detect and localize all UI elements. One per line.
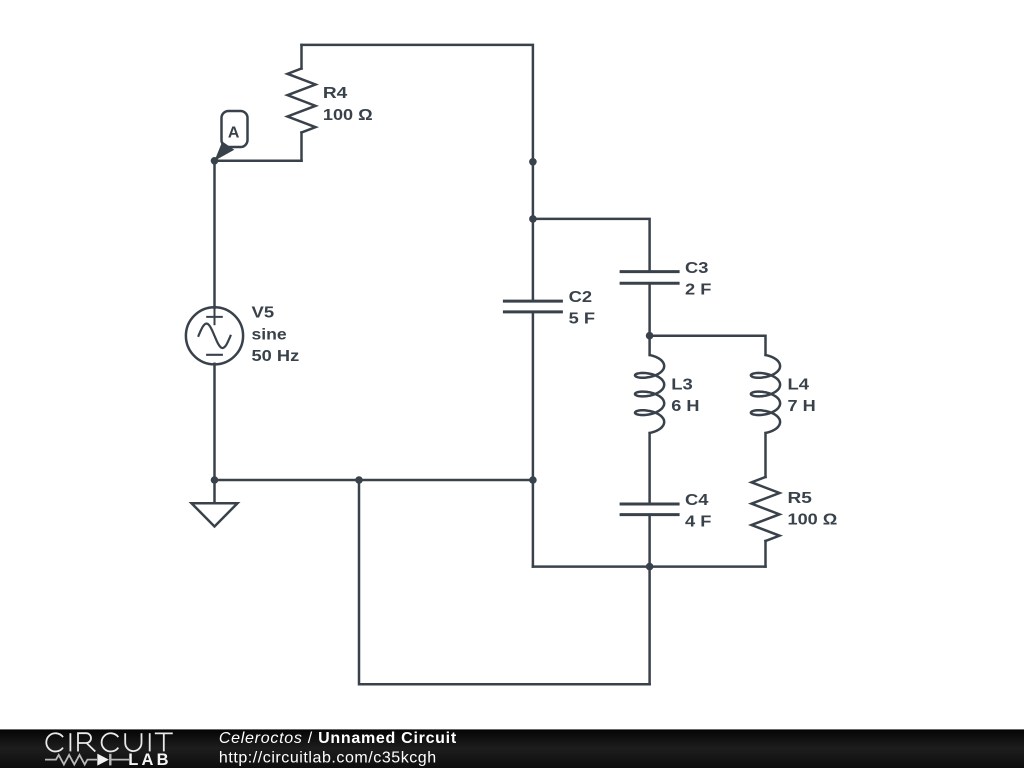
wire: C4 bottom plate to bottom loop bbox=[648, 515, 651, 685]
svg-text:C4: C4 bbox=[685, 492, 709, 509]
wire: bottom return loop to ground rail bbox=[359, 480, 650, 684]
wire: ground rail from V5 junction to C2 trunk bbox=[215, 479, 533, 482]
footer bar background bbox=[0, 729, 1024, 768]
svg-text:R5: R5 bbox=[788, 490, 813, 507]
svg-text:5 F: 5 F bbox=[569, 311, 596, 328]
junction dot: ground at V5 bbox=[211, 476, 219, 484]
junction dot: L3/L4 branch bbox=[646, 332, 654, 340]
ground symbol stub bbox=[213, 480, 216, 503]
junction dot: trunk at y=162 bbox=[529, 158, 537, 166]
junction dot: node A bbox=[211, 157, 219, 165]
svg-text:R4: R4 bbox=[323, 85, 348, 102]
inductor L4 coil (7 H) bbox=[751, 355, 780, 433]
V5 plus sign bbox=[207, 310, 222, 325]
svg-text:C2: C2 bbox=[569, 289, 593, 306]
V5 minus sign bbox=[207, 354, 222, 356]
wire: node A down to V5 top bbox=[213, 161, 216, 308]
svg-text:http://circuitlab.com/c35kcgh: http://circuitlab.com/c35kcgh bbox=[219, 750, 437, 767]
svg-text:7 H: 7 H bbox=[788, 398, 816, 415]
node A pointer wedge bbox=[215, 142, 235, 161]
svg-text:6 H: 6 H bbox=[671, 398, 699, 415]
wire: V5 bottom to ground rail bbox=[213, 364, 216, 480]
junction dot: C4 bottom / lower rail bbox=[646, 563, 654, 571]
wire: node A to R4 bottom lead bbox=[215, 160, 302, 163]
svg-text:sine: sine bbox=[252, 326, 287, 343]
node A flag box bbox=[222, 111, 248, 147]
svg-text:A: A bbox=[228, 125, 240, 142]
capacitor C3 plates (2 F) bbox=[620, 272, 680, 284]
wire: branch from trunk to C3 top bbox=[533, 219, 650, 272]
capacitor C2 plates (5 F) bbox=[503, 301, 563, 312]
svg-text:L3: L3 bbox=[671, 377, 693, 394]
resistor R5 (100 ohm) body bbox=[752, 477, 780, 541]
svg-text:L4: L4 bbox=[788, 377, 810, 394]
wire: L3 bottom to C4 top plate bbox=[648, 433, 651, 504]
wire: branch L3 node to L4 top bbox=[650, 336, 766, 355]
svg-text:50 Hz: 50 Hz bbox=[252, 348, 300, 365]
wire: lower horizontal rail C2 to C4 bottom to R5 bottom bbox=[533, 565, 766, 568]
voltage source V5 circle bbox=[186, 307, 243, 364]
CircuitLab logo diode triangle bbox=[97, 754, 109, 766]
wire top rail: R4 top to vertical trunk, down to C2 top plate bbox=[302, 45, 533, 301]
wire: C2 bottom plate down to lower-left junction bbox=[532, 312, 535, 567]
svg-text:2 F: 2 F bbox=[685, 282, 712, 299]
wire: L4 bottom to R5 top lead bbox=[764, 433, 767, 477]
inductor L3 coil (6 H) bbox=[635, 355, 664, 433]
V5 sine waveform bbox=[199, 324, 231, 348]
wire: R5 bottom lead bbox=[764, 541, 767, 567]
svg-text:V5: V5 bbox=[252, 305, 275, 322]
svg-text:C3: C3 bbox=[685, 260, 709, 277]
svg-text:Celeroctos / Unnamed Circuit: Celeroctos / Unnamed Circuit bbox=[219, 730, 457, 747]
svg-text:LAB: LAB bbox=[128, 751, 172, 768]
CircuitLab logo wordmark CIRCUIT (drawn strokes) bbox=[46, 733, 173, 751]
ground symbol triangle bbox=[192, 503, 238, 526]
wire: C3 bottom to L3 top bbox=[648, 283, 651, 355]
svg-text:100 Ω: 100 Ω bbox=[788, 512, 838, 529]
resistor R4 (100 ohm) body with leads bbox=[300, 45, 303, 69]
junction dot: ground rail / C2 trunk bbox=[529, 476, 537, 484]
junction dot: trunk to C3 branch bbox=[529, 215, 537, 223]
capacitor C4 plates (4 F) bbox=[620, 504, 680, 515]
CircuitLab logo schematic squiggle: wire, resistor, diode bbox=[45, 754, 129, 766]
junction dot: ground rail / bottom loop bbox=[355, 476, 363, 484]
svg-text:4 F: 4 F bbox=[685, 514, 712, 531]
svg-text:100 Ω: 100 Ω bbox=[323, 107, 373, 124]
